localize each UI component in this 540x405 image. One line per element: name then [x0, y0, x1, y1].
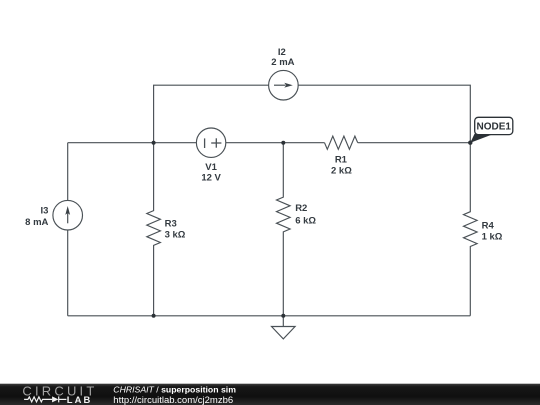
label R1 value	[331, 155, 352, 177]
wire from R1 right to NODE1 junction	[358, 142, 471, 144]
CircuitLab logo resistor-diode glyph	[24, 396, 66, 402]
current source I3 arrow	[65, 206, 70, 223]
svg-text:R2: R2	[295, 203, 307, 214]
current source I2 arrow	[274, 83, 293, 88]
label R4 value	[482, 220, 503, 242]
svg-text:12 V: 12 V	[201, 173, 221, 184]
wire I3 bottom to bottom rail	[67, 230, 69, 316]
voltage source V1 circle	[196, 128, 225, 157]
voltage source V1 polarity marks	[205, 138, 222, 148]
resistor R1	[325, 136, 358, 149]
label R2 value	[295, 203, 316, 227]
wire left rail vertical to I3	[67, 143, 69, 201]
NODE1 label box	[475, 117, 513, 134]
svg-text:I3: I3	[40, 206, 48, 217]
wire from V1 right to R1 left	[226, 142, 325, 144]
svg-text:R3: R3	[165, 219, 177, 230]
junction ground node	[281, 314, 285, 318]
svg-text:http://circuitlab.com/cj2mzb6: http://circuitlab.com/cj2mzb6	[113, 395, 233, 405]
svg-text:NODE1: NODE1	[476, 122, 511, 133]
wire top-left from node A up to I2	[154, 85, 269, 143]
svg-text:LAB: LAB	[67, 394, 93, 405]
svg-text:8 mA: 8 mA	[25, 217, 48, 228]
label I3 value	[25, 206, 48, 229]
wire from I2 right to right rail top corner down to NODE1	[298, 85, 471, 143]
resistor R4 (with leads)	[464, 143, 478, 316]
junction node R3 bottom	[152, 314, 156, 318]
junction NODE1	[468, 141, 472, 145]
svg-text:R4: R4	[482, 220, 495, 231]
label I2 value	[271, 47, 294, 68]
label R3 value	[165, 219, 186, 241]
wire left rail horizontal to node A	[68, 142, 197, 144]
label V1 value	[201, 162, 221, 184]
current source I2 circle	[269, 70, 299, 100]
svg-text:R1: R1	[335, 155, 348, 166]
svg-text:V1: V1	[205, 162, 217, 173]
svg-text:3 kΩ: 3 kΩ	[165, 230, 186, 241]
current source I3 circle	[53, 200, 83, 230]
resistor R2 (with leads)	[277, 143, 291, 316]
junction node B (R2 top)	[281, 141, 285, 145]
NODE1 flag pointer	[470, 134, 491, 143]
ground symbol	[272, 316, 296, 339]
resistor R3 (with leads)	[147, 143, 161, 316]
svg-text:CHRISAIT / superposition sim: CHRISAIT / superposition sim	[113, 385, 236, 395]
svg-text:2 kΩ: 2 kΩ	[331, 165, 352, 176]
wire bottom rail	[68, 315, 471, 317]
svg-text:2 mA: 2 mA	[271, 57, 294, 68]
junction node A (V1/R3 tap)	[152, 141, 156, 145]
svg-text:6 kΩ: 6 kΩ	[295, 216, 316, 227]
svg-text:1 kΩ: 1 kΩ	[482, 231, 503, 242]
